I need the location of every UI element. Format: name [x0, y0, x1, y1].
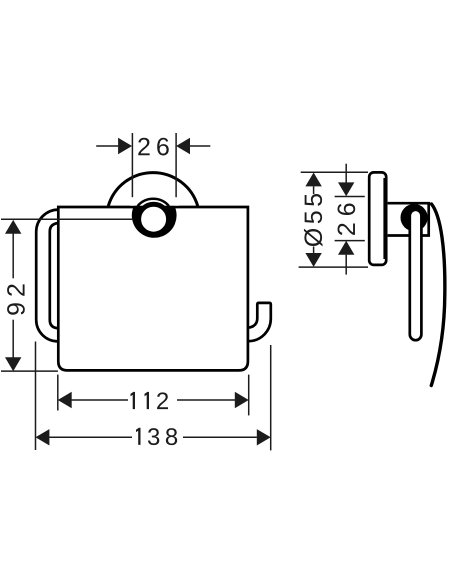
roll bar arm (capsule)	[410, 210, 422, 340]
dim O55: top ref line	[301, 171, 368, 173]
dim 112: left arrow	[58, 392, 72, 408]
dim 26 side: label	[338, 203, 356, 234]
dim 92: label	[7, 284, 25, 314]
dim 112: ext line left	[57, 375, 59, 411]
dim 26 side: top arrow	[338, 182, 354, 196]
dome (cover top arc)	[108, 173, 197, 206]
roll bar right hook	[248, 303, 271, 341]
dim 26 top: right arrow	[176, 138, 190, 154]
wall plate face line	[383, 178, 385, 259]
dim 26 top: ext line right	[175, 133, 177, 197]
roll bar left hook inner	[50, 223, 59, 328]
dim 92: line lower seg	[12, 320, 14, 359]
dim 112: ext line right	[248, 375, 250, 416]
roll bar left hook outer	[36, 210, 58, 342]
dim 26 top: right leader	[190, 145, 210, 147]
dim 26 side: bottom ref line	[335, 240, 365, 242]
dim 138: left arrow	[36, 429, 50, 445]
dim 138: ext line right	[270, 345, 272, 450]
knob collar crescent	[138, 199, 170, 206]
dim 138: line left seg	[49, 436, 132, 438]
dim 26 side: top ref line	[335, 196, 365, 198]
pivot disc	[401, 204, 428, 231]
dim O55: bottom ref line	[299, 266, 368, 268]
dim 112: right arrow	[235, 392, 249, 408]
dim 92: line upper seg	[12, 232, 14, 278]
mount block	[388, 203, 429, 235]
dim O55: bottom arrow	[305, 253, 321, 267]
dim 138: ext line left	[35, 342, 37, 451]
dim 92: bottom ref line	[1, 370, 58, 372]
dim 92: top ref line	[1, 218, 133, 220]
dim 26 side: bottom arrow	[338, 241, 354, 255]
dim 26 side: lower line	[345, 255, 347, 275]
dim 138: right arrow	[257, 429, 271, 445]
cover plate (front)	[58, 207, 248, 370]
dim 138: line right seg	[183, 436, 257, 438]
dim O55: top arrow	[305, 173, 321, 187]
dim 138: label	[136, 428, 141, 445]
wall plate (side)	[369, 172, 386, 265]
dim 26 top: left arrow	[118, 138, 132, 154]
dim 26 top: left leader	[96, 145, 118, 147]
dim 92: top arrow	[5, 220, 21, 234]
dim 112: line right seg	[177, 399, 235, 401]
dim 26 side: upper line	[345, 164, 347, 183]
dim 112: line left seg	[72, 399, 129, 401]
dim 92: bottom arrow	[5, 357, 21, 371]
dim 26 top: ext line left	[131, 133, 133, 197]
knob hinge socket	[132, 193, 177, 238]
knob ring	[139, 204, 169, 234]
dim O55: label	[304, 194, 323, 246]
dim 26 top: label	[138, 138, 168, 156]
dim O55: line segs	[313, 186, 315, 194]
dim 112: label	[131, 392, 136, 409]
cover flap curve	[431, 204, 445, 386]
